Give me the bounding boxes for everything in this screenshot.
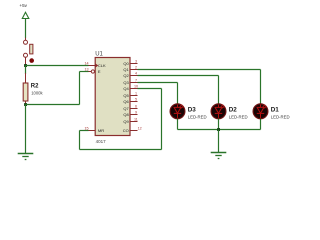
svg-text:Q5: Q5 — [123, 93, 129, 98]
LED D2 — [211, 104, 226, 119]
svg-text:12: 12 — [138, 126, 142, 130]
svg-text:R2: R2 — [31, 84, 39, 90]
svg-text:4: 4 — [135, 71, 137, 75]
svg-text:13: 13 — [84, 67, 88, 71]
svg-text:Q4: Q4 — [123, 86, 129, 91]
pin Q8 (9) stub — [130, 114, 138, 116]
wire D1 to bus — [260, 119, 262, 130]
svg-text:CO: CO — [123, 128, 129, 133]
wire Q3 to D3 horizontal — [138, 82, 178, 84]
svg-text:14: 14 — [84, 61, 88, 65]
node junction R2 bottom — [24, 103, 27, 106]
wire MR riser — [79, 131, 81, 150]
node junction button/CLK/R2 — [24, 64, 27, 67]
pin CLK arrow — [95, 63, 98, 67]
svg-text:1: 1 — [135, 91, 137, 95]
svg-text:LED-RED: LED-RED — [229, 114, 248, 119]
resistor R2 bottom lead — [25, 101, 27, 105]
svg-text:Q9: Q9 — [123, 119, 129, 124]
pin CO (12) stub — [130, 130, 138, 132]
svg-text:D3: D3 — [188, 106, 197, 113]
wire R2 junction to ground — [25, 105, 27, 154]
pin E inversion bubble — [91, 70, 94, 73]
pin Q9 (11) stub — [130, 121, 138, 123]
svg-text:1000k: 1000k — [31, 91, 43, 96]
wire CLK net horizontal — [26, 65, 89, 67]
pin E (13) stub — [89, 71, 92, 73]
svg-text:D2: D2 — [229, 106, 238, 113]
wire Q3 to D3 vertical — [177, 83, 179, 105]
pin Q2 (4) stub — [130, 75, 138, 77]
LED D3 — [170, 104, 185, 119]
svg-text:D1: D1 — [271, 106, 280, 113]
pushbutton actuator — [30, 44, 33, 54]
wire Q2 to D2 vertical — [218, 76, 220, 105]
wire +5V to button — [25, 19, 27, 39]
svg-text:Q8: Q8 — [123, 112, 129, 117]
wire Q4 horizontal — [138, 88, 162, 90]
pin Q7 (6) stub — [130, 108, 138, 110]
pushbutton actuation red dot — [29, 58, 34, 63]
wire bus to ground — [218, 130, 220, 153]
svg-text:2: 2 — [135, 65, 137, 69]
svg-text:LED-RED: LED-RED — [188, 114, 207, 119]
svg-text:MR: MR — [98, 128, 104, 133]
node junction bus/ground — [217, 128, 220, 131]
wire Q2 to D2 horizontal — [138, 75, 219, 77]
pushbutton top lead — [25, 38, 27, 41]
wire Q4 to MR bottom run — [80, 149, 162, 151]
svg-text:7: 7 — [135, 78, 137, 82]
pushbutton terminal 2 — [24, 53, 28, 57]
wire R2 bottom to E drop — [26, 104, 80, 106]
wire E horizontal — [80, 71, 89, 73]
wire junction to R2 top — [25, 66, 27, 75]
svg-text:4017: 4017 — [96, 139, 107, 144]
wire E vertical drop — [79, 72, 81, 105]
resistor R2 top lead — [25, 73, 27, 83]
wire cathode bus — [178, 129, 261, 131]
svg-text:6: 6 — [135, 104, 137, 108]
svg-text:Q6: Q6 — [123, 99, 129, 104]
IC U1 4017 body — [95, 58, 130, 136]
svg-text:CLK: CLK — [98, 63, 106, 68]
svg-text:10: 10 — [134, 84, 138, 88]
pin Q4 (10) stub — [130, 88, 138, 90]
pin MR (15) stub — [89, 130, 96, 132]
pin CLK (14) stub — [89, 65, 96, 67]
svg-text:5: 5 — [135, 97, 137, 101]
pushbutton terminal 1 — [24, 40, 28, 44]
pin Q0 (3) stub — [130, 63, 138, 65]
wire Q1 to D1 vertical — [260, 70, 262, 105]
svg-text:U1: U1 — [95, 51, 103, 57]
svg-text:9: 9 — [135, 110, 137, 114]
svg-text:11: 11 — [134, 117, 138, 121]
svg-text:E: E — [98, 69, 101, 74]
wire Q1 to D1 horizontal — [138, 69, 261, 71]
wire MR horizontal — [80, 130, 89, 132]
svg-text:15: 15 — [84, 126, 88, 130]
svg-text:LED-RED: LED-RED — [271, 114, 290, 119]
power +5V arrow symbol — [22, 12, 29, 18]
pin Q3 (7) stub — [130, 82, 138, 84]
pin Q5 (1) stub — [130, 95, 138, 97]
wire D2 to bus — [218, 119, 220, 130]
pin Q6 (5) stub — [130, 101, 138, 103]
ground right — [211, 153, 227, 159]
LED D1 — [253, 104, 268, 119]
pushbutton bottom lead — [25, 57, 27, 65]
ground left — [18, 154, 34, 160]
wire D3 to bus — [177, 119, 179, 130]
wire Q4 vertical drop — [161, 89, 163, 150]
svg-text:3: 3 — [135, 59, 137, 63]
svg-text:+5v: +5v — [19, 3, 27, 8]
svg-text:Q7: Q7 — [123, 106, 129, 111]
pin Q1 (2) stub — [130, 69, 138, 71]
svg-text:Q3: Q3 — [123, 80, 129, 85]
svg-text:Q0: Q0 — [123, 61, 129, 66]
resistor R2 body — [23, 83, 28, 101]
svg-text:Q1: Q1 — [123, 67, 129, 72]
svg-text:Q2: Q2 — [123, 73, 129, 78]
